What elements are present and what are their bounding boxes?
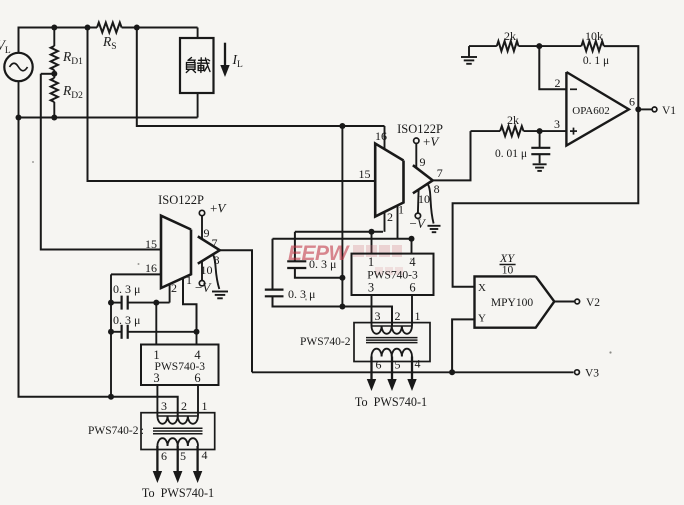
label T2 name bbox=[300, 336, 351, 348]
wire line A bbox=[295, 231, 383, 233]
label R3 2k bbox=[504, 29, 516, 43]
svg-text:2: 2 bbox=[181, 399, 187, 413]
svg-text:6: 6 bbox=[629, 95, 635, 109]
transformer T2 core bbox=[366, 338, 418, 343]
ground R3 input bbox=[461, 46, 477, 64]
node rail-capchain bbox=[108, 394, 114, 400]
wire Y input bbox=[452, 319, 474, 372]
label U4 pin1 bbox=[368, 255, 374, 269]
wire load bottom bbox=[197, 93, 199, 118]
wire R4 to out bbox=[604, 46, 639, 109]
label T2 pin4 bbox=[415, 357, 421, 371]
wire inv node down bbox=[539, 46, 566, 89]
label R4 10k bbox=[585, 29, 603, 43]
label U1 pin9 bbox=[204, 226, 210, 240]
wire line B bbox=[273, 238, 412, 240]
wire R5 to pin3 bbox=[524, 130, 567, 132]
label R5 2k bbox=[507, 113, 519, 127]
wire RD1-RD2 bbox=[53, 70, 55, 78]
wire out to V1 bbox=[638, 108, 652, 110]
node rail x342 top bbox=[339, 123, 345, 129]
svg-text:8: 8 bbox=[434, 182, 440, 196]
svg-text:1: 1 bbox=[202, 399, 208, 413]
wire U2 pin2 bbox=[384, 212, 386, 232]
svg-text:0. 3 μ: 0. 3 μ bbox=[113, 282, 140, 296]
label U3 pin6 bbox=[194, 371, 200, 385]
svg-text:4: 4 bbox=[409, 255, 416, 269]
label V1 bbox=[662, 105, 676, 117]
label U2 +V bbox=[423, 134, 440, 149]
label T1 pin5 bbox=[180, 449, 186, 463]
current arrow IL bbox=[220, 43, 229, 77]
label U2 pin10 bbox=[418, 192, 430, 206]
svg-text:1: 1 bbox=[415, 309, 421, 323]
label C4 0.3u bbox=[288, 287, 315, 301]
wire T1 pin6 arrow bbox=[153, 446, 162, 483]
svg-text:1: 1 bbox=[368, 255, 374, 269]
wire U3 pin3 down bbox=[156, 385, 158, 416]
label U1 -V bbox=[195, 280, 212, 295]
svg-text:1: 1 bbox=[398, 203, 404, 217]
wire VL down-left bbox=[19, 118, 112, 397]
label T2 pin6 bbox=[376, 358, 382, 372]
svg-text:EEPW: EEPW bbox=[288, 242, 351, 265]
wire U4 pin4 up bbox=[411, 239, 413, 254]
label XY fraction bbox=[499, 251, 516, 277]
node pin3 junction bbox=[537, 128, 543, 134]
module U3 PWS740-3 bbox=[141, 345, 219, 386]
wire U1 pin7 out bbox=[220, 250, 252, 372]
transformer T2 box PWS740-2 bbox=[354, 323, 430, 362]
wire T2 pin6 arrow bbox=[367, 357, 376, 392]
svg-text:MPY100: MPY100 bbox=[491, 297, 533, 309]
label U6 name bbox=[491, 297, 533, 309]
label U1 pin10 bbox=[201, 263, 213, 277]
AC source VL bbox=[4, 53, 32, 81]
wire U4 pin1 up bbox=[371, 232, 373, 254]
wire rail to T1 pin2 bbox=[111, 397, 178, 416]
isolation amp U1 output triangle bbox=[198, 236, 220, 263]
svg-text:OPA602: OPA602 bbox=[572, 105, 610, 117]
resistor RD2 bbox=[51, 78, 58, 118]
label C2 0.3u bbox=[113, 313, 140, 327]
svg-text:To PWS740-1: To PWS740-1 bbox=[142, 486, 214, 500]
label T2 pin5 bbox=[395, 358, 401, 372]
wire U2 out to R5 bbox=[471, 130, 501, 132]
wire U2 pin16 up bbox=[384, 126, 386, 149]
label T2 pin3 bbox=[375, 309, 381, 323]
label C3 0.3u bbox=[309, 257, 336, 271]
multiplier U6 MPY100 bbox=[475, 276, 555, 327]
svg-text:−V: −V bbox=[410, 216, 427, 231]
wire U1 pin1 bbox=[183, 278, 197, 332]
svg-text:XY: XY bbox=[499, 251, 515, 265]
speck marks bbox=[32, 161, 612, 354]
svg-text:0. 1 μ: 0. 1 μ bbox=[583, 55, 609, 67]
resistor R3 2k bbox=[497, 41, 519, 51]
transformer T1 box PWS740-2 bbox=[141, 413, 215, 450]
svg-text:4: 4 bbox=[202, 448, 208, 462]
label RD2 bbox=[62, 83, 83, 101]
ground U2 bbox=[428, 226, 441, 232]
label T1 name bbox=[88, 425, 144, 437]
node cap1 left bbox=[108, 300, 114, 306]
wire branch x87 down bbox=[88, 28, 376, 182]
wire T1 pin4 arrow bbox=[193, 446, 202, 483]
label U2 ISO122P bbox=[397, 122, 443, 136]
isolation amp U2 ISO122P input side bbox=[375, 144, 403, 217]
node lineB to U4 pin4 bbox=[409, 236, 415, 242]
svg-text:2k: 2k bbox=[507, 113, 519, 127]
svg-text:2: 2 bbox=[387, 210, 393, 224]
label V3 bbox=[585, 368, 599, 380]
svg-text:10k: 10k bbox=[585, 29, 603, 43]
label U2 pin15 bbox=[359, 167, 371, 181]
label To PWS740-1 mid bbox=[355, 395, 427, 409]
transformer T2 primary winding bbox=[372, 326, 413, 334]
wire U1 pin16 bbox=[111, 273, 161, 275]
svg-text:3: 3 bbox=[368, 281, 374, 295]
node lineA to U4 pin1 bbox=[369, 229, 375, 235]
capacitor C3 0.3u bbox=[287, 232, 342, 278]
wire RD tap bbox=[41, 73, 55, 75]
label U5 minus bbox=[570, 88, 577, 90]
svg-text:9: 9 bbox=[420, 155, 426, 169]
svg-text:V2: V2 bbox=[586, 297, 600, 309]
node RD tap bbox=[51, 71, 57, 77]
label T1 pin4 bbox=[202, 448, 208, 462]
label To PWS740-1 left bbox=[142, 486, 214, 500]
label U1 pin1 bbox=[186, 273, 192, 287]
label U2 pin9 bbox=[420, 155, 426, 169]
label U3 name bbox=[155, 361, 206, 373]
resistor R4 10k bbox=[581, 41, 603, 51]
svg-text:5: 5 bbox=[180, 449, 186, 463]
wire U6 out to V2 bbox=[554, 301, 574, 303]
wire U2 pin9 bbox=[415, 143, 417, 168]
label U4 name bbox=[367, 270, 418, 282]
ground U1 bbox=[212, 292, 228, 299]
wire cap chain x111 bbox=[110, 274, 112, 396]
svg-text:15: 15 bbox=[145, 237, 157, 251]
terminal U2 +V bbox=[414, 138, 419, 143]
svg-text:V1: V1 bbox=[662, 105, 676, 117]
capacitor C1 0.3u bbox=[111, 296, 170, 310]
svg-text:X: X bbox=[478, 282, 486, 294]
terminal U1 -V bbox=[199, 281, 204, 286]
transformer T1 primary winding bbox=[157, 416, 198, 424]
node C1 right bbox=[153, 300, 159, 306]
node RS output bbox=[134, 25, 140, 31]
op-amp U5 OPA602 bbox=[566, 72, 629, 146]
label U3 pin4 bbox=[194, 348, 201, 362]
label U2 pin16 bbox=[375, 129, 387, 143]
label U1 pin7 bbox=[212, 236, 218, 250]
label T2 pin1 bbox=[415, 309, 421, 323]
label U5 pin6 bbox=[629, 95, 635, 109]
wire U1 pin10 bbox=[201, 261, 203, 280]
wire U1 pin2 bbox=[169, 284, 171, 303]
label U1 pin2 bbox=[171, 281, 177, 295]
wire VL top bbox=[19, 28, 98, 53]
svg-text:V3: V3 bbox=[585, 368, 599, 380]
watermark EEPW bbox=[288, 242, 403, 275]
wire load top bbox=[197, 28, 199, 39]
svg-text:0. 01 μ: 0. 01 μ bbox=[495, 148, 527, 160]
load box 负载 bbox=[180, 38, 214, 93]
svg-text:1: 1 bbox=[186, 273, 192, 287]
label U1 pin15 bbox=[145, 237, 157, 251]
wire U1 pin9 bbox=[201, 216, 203, 239]
svg-text:Y: Y bbox=[478, 313, 486, 325]
wire T1 pin5 arrow bbox=[173, 446, 182, 483]
label U6 X bbox=[478, 282, 486, 294]
wire U2 pin10 bbox=[417, 190, 420, 213]
svg-text:9: 9 bbox=[204, 226, 210, 240]
node RS-RD1 junction bbox=[51, 25, 57, 31]
svg-text:7: 7 bbox=[437, 166, 443, 180]
label T1 pin2 bbox=[181, 399, 187, 413]
capacitor C4 0.3u bbox=[265, 239, 392, 326]
wire VL bottom bbox=[18, 81, 20, 117]
svg-text:6: 6 bbox=[194, 371, 200, 385]
wire U2 pin1 bbox=[397, 206, 399, 239]
capacitor C6 0.01u bbox=[531, 131, 550, 163]
label U4 pin6 bbox=[409, 281, 415, 295]
svg-text:2: 2 bbox=[555, 76, 561, 90]
svg-text:0. 3 μ: 0. 3 μ bbox=[113, 313, 140, 327]
label RD1 bbox=[62, 49, 83, 67]
terminal U1 +V bbox=[199, 210, 204, 215]
wire common rail x342 bbox=[341, 126, 343, 307]
terminal V1 bbox=[652, 107, 657, 112]
wire T2 pin4 arrow bbox=[407, 357, 416, 392]
label T2 pin2 bbox=[395, 309, 401, 323]
label C5 0.1u bbox=[583, 55, 609, 67]
terminal V2 bbox=[575, 299, 580, 304]
wire V1 feedback down bbox=[453, 109, 639, 286]
node C4-rail bbox=[339, 304, 345, 310]
node C2 right bbox=[194, 329, 200, 335]
svg-text:10: 10 bbox=[502, 265, 514, 277]
isolation amp U1 ISO122P input side bbox=[161, 216, 191, 288]
svg-text:PWS740-2 :: PWS740-2 : bbox=[88, 425, 144, 437]
wire lower rail bbox=[19, 117, 198, 119]
svg-text:2: 2 bbox=[395, 309, 401, 323]
svg-text:6: 6 bbox=[376, 358, 382, 372]
node top rail branch bbox=[85, 25, 91, 31]
resistor R5 2k bbox=[500, 126, 523, 136]
transformer T1 core bbox=[153, 428, 203, 433]
label U1 pin8 bbox=[214, 253, 220, 267]
wire RD-tap down bbox=[41, 74, 161, 250]
label U5 pin2 bbox=[555, 76, 561, 90]
label U4 pin3 bbox=[368, 281, 374, 295]
svg-text:+V: +V bbox=[423, 134, 440, 149]
terminal V3 bbox=[575, 370, 580, 375]
label T1 pin3 bbox=[161, 399, 167, 413]
label U2 pin8 bbox=[434, 182, 440, 196]
wire U1 pin8 to gnd bbox=[213, 255, 219, 290]
node inv junction bbox=[536, 43, 542, 49]
module U4 PWS740-3 bbox=[352, 254, 434, 295]
svg-text:1: 1 bbox=[153, 348, 159, 362]
svg-text:7: 7 bbox=[212, 236, 218, 250]
svg-text:4: 4 bbox=[415, 357, 421, 371]
label T1 pin6 bbox=[161, 449, 167, 463]
svg-text:PWS740-2: PWS740-2 bbox=[300, 336, 351, 348]
node V3-Y junction bbox=[449, 369, 455, 375]
terminal U2 -V bbox=[415, 213, 420, 218]
label IL bbox=[232, 52, 244, 70]
label U2 pin7 bbox=[437, 166, 443, 180]
svg-text:6: 6 bbox=[161, 449, 167, 463]
label U2 pin1 bbox=[398, 203, 404, 217]
wire C2 node down to pin4 of PWS740-3 bbox=[196, 332, 198, 345]
wire U2 pin8 to gnd bbox=[428, 185, 434, 224]
svg-text:4: 4 bbox=[194, 348, 201, 362]
label VL bbox=[0, 38, 11, 56]
node cap2 left bbox=[108, 329, 114, 335]
label RS bbox=[102, 34, 117, 52]
label U1 +V bbox=[210, 201, 227, 216]
label U1 pin16 bbox=[145, 261, 157, 275]
node VL-rail bbox=[16, 115, 22, 121]
wire U2 pin7 out bbox=[433, 131, 471, 180]
wire U4 pin3 down bbox=[371, 295, 373, 326]
label U3 pin1 bbox=[153, 348, 159, 362]
transformer T2 secondary winding bbox=[372, 349, 412, 357]
svg-text:3: 3 bbox=[554, 117, 560, 131]
label U1 ISO122P bbox=[158, 193, 204, 207]
wire V3 rail bbox=[252, 371, 574, 373]
label U2 pin2 bbox=[387, 210, 393, 224]
capacitor C2 0.3u bbox=[111, 325, 197, 339]
label C6 0.01u bbox=[495, 148, 527, 160]
svg-text:16: 16 bbox=[145, 261, 157, 275]
svg-text:6: 6 bbox=[409, 281, 415, 295]
svg-text:15: 15 bbox=[359, 167, 371, 181]
svg-text:0. 3 μ: 0. 3 μ bbox=[288, 287, 315, 301]
label U2 -V bbox=[410, 216, 427, 231]
svg-text:+V: +V bbox=[210, 201, 227, 216]
svg-text:3: 3 bbox=[161, 399, 167, 413]
wire U3 pin6 down bbox=[197, 385, 199, 416]
label U4 pin4 bbox=[409, 255, 416, 269]
svg-text:ISO122P: ISO122P bbox=[158, 193, 204, 207]
label C1 0.3u bbox=[113, 282, 140, 296]
label U5 name bbox=[572, 105, 610, 117]
label U3 pin3 bbox=[153, 371, 159, 385]
transformer T1 secondary winding bbox=[157, 438, 198, 446]
svg-text:3: 3 bbox=[153, 371, 159, 385]
wire gnd to R3 bbox=[469, 45, 497, 47]
label U5 plus bbox=[570, 128, 577, 135]
resistor RS bbox=[97, 23, 122, 33]
resistor RD1 bbox=[51, 28, 58, 71]
svg-text:3: 3 bbox=[375, 309, 381, 323]
label V2 bbox=[586, 297, 600, 309]
svg-text:10: 10 bbox=[418, 192, 430, 206]
node RD2-rail bbox=[51, 115, 57, 121]
label U5 pin3 bbox=[554, 117, 560, 131]
label U6 Y bbox=[478, 313, 486, 325]
isolation amp U2 output triangle bbox=[413, 165, 433, 193]
node output junction bbox=[635, 106, 641, 112]
label T1 pin1 bbox=[202, 399, 208, 413]
svg-text:To PWS740-1: To PWS740-1 bbox=[355, 395, 427, 409]
wire top rail (RS right to load) bbox=[122, 27, 198, 29]
wire T2 pin5 arrow bbox=[387, 357, 396, 392]
node C3-rail bbox=[339, 275, 345, 281]
svg-text:−V: −V bbox=[195, 280, 212, 295]
wire U4 pin6 down bbox=[411, 295, 413, 326]
wire RS-out down bbox=[137, 28, 385, 127]
svg-text:2k: 2k bbox=[504, 29, 516, 43]
svg-text:5: 5 bbox=[395, 358, 401, 372]
wire C1 node down to pin1 of PWS740-3 bbox=[155, 303, 157, 345]
ground C6 bbox=[533, 164, 547, 171]
svg-text:2: 2 bbox=[171, 281, 177, 295]
wire R3 to R4 bbox=[519, 45, 582, 47]
